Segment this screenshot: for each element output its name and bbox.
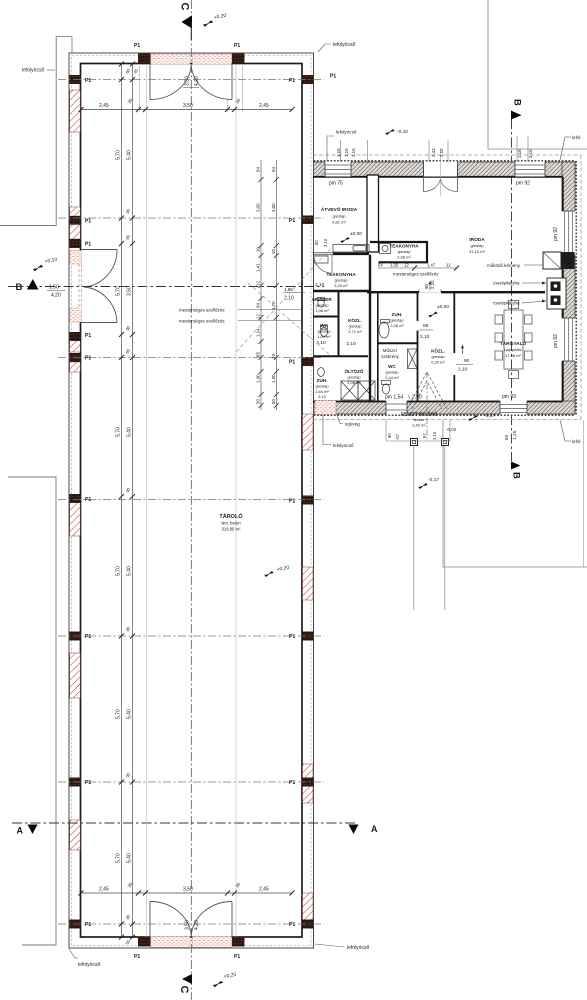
- wire central vertical wall V1: [369, 255, 371, 401]
- wire A-A section line: [12, 822, 355, 824]
- node office-side tick marks: [259, 177, 279, 408]
- svg-text:4,20: 4,20: [194, 920, 200, 930]
- svg-text:2,45: 2,45: [99, 103, 109, 109]
- svg-text:2,10: 2,10: [439, 148, 444, 157]
- pillars right wall: [302, 75, 314, 84]
- svg-text:P1: P1: [85, 242, 91, 248]
- svg-text:2,42 m²: 2,42 m²: [412, 423, 426, 428]
- svg-text:5,70: 5,70: [116, 709, 122, 719]
- svg-text:ÁTVEVŐ IRODA: ÁTVEVŐ IRODA: [321, 206, 358, 213]
- node section C top: triangle and label: [182, 15, 193, 28]
- svg-text:1,18: 1,18: [517, 149, 522, 158]
- svg-text:1,90: 1,90: [256, 374, 261, 383]
- svg-text:5,70: 5,70: [116, 150, 122, 160]
- svg-text:2,10: 2,10: [430, 280, 435, 289]
- svg-text:greslap: greslap: [317, 329, 331, 334]
- node room label IRODA: [469, 237, 485, 254]
- wire grid row 7: [58, 923, 324, 925]
- node top door opening white: [151, 64, 232, 66]
- svg-text:pm 93: pm 93: [502, 394, 516, 400]
- svg-text:97: 97: [422, 433, 427, 438]
- svg-text:90: 90: [424, 284, 429, 289]
- svg-text:greslap: greslap: [431, 354, 445, 359]
- transistor-style dark pillars P1: left wall: [69, 54, 313, 947]
- svg-text:pm 1,54: pm 1,54: [385, 395, 403, 401]
- svg-text:3,16: 3,16: [528, 149, 533, 158]
- node window pm92 right upper: [562, 211, 576, 255]
- node stove niche: [547, 278, 566, 309]
- wire office inner thick wall edges: [313, 177, 563, 402]
- node bottom door leaves: [149, 902, 151, 938]
- node dim texts bottom chain: [99, 881, 269, 892]
- node tick marks top chain: [79, 107, 295, 112]
- wire office eaves dashed outline: [313, 155, 581, 420]
- node section A right: [349, 825, 359, 835]
- svg-text:-0,17: -0,17: [428, 477, 439, 483]
- node tile stove 1: [551, 282, 561, 292]
- svg-text:2,10: 2,10: [346, 341, 356, 347]
- svg-text:4,20: 4,20: [51, 293, 61, 299]
- wire B-B section line horizontal: [8, 286, 324, 288]
- svg-text:85: 85: [256, 352, 261, 357]
- svg-text:pm 92: pm 92: [553, 227, 559, 241]
- node P1 labels left wall: [85, 43, 336, 960]
- svg-text:C: C: [178, 986, 190, 994]
- svg-text:pm 75: pm 75: [329, 181, 343, 187]
- wire grid row 1: [58, 79, 324, 81]
- svg-text:2,98 m²: 2,98 m²: [397, 255, 411, 260]
- svg-text:85: 85: [423, 323, 429, 329]
- node terrace outline bottom right: [443, 420, 587, 567]
- wire wc1 right wall: [338, 292, 340, 356]
- wire interior dim chain line 2: [132, 64, 134, 937]
- pillars bottom wall door flanks: [138, 937, 151, 947]
- node dims teakonyha chain: [378, 263, 451, 268]
- svg-text:12: 12: [256, 281, 261, 286]
- wire post extension line 2: [444, 446, 446, 611]
- svg-text:terasz: terasz: [414, 417, 425, 422]
- node oltozo lockers: [341, 381, 358, 400]
- svg-text:2,10: 2,10: [458, 367, 468, 373]
- node post 1: [411, 439, 418, 446]
- node left door leaves: [81, 249, 117, 251]
- wire post extension line 1: [413, 446, 415, 611]
- node section C bottom: [182, 974, 192, 984]
- svg-text:lefolyócső: lefolyócső: [347, 945, 369, 951]
- svg-text:3,50: 3,50: [183, 103, 193, 109]
- svg-text:KÖZL.: KÖZL.: [348, 317, 362, 323]
- svg-text:P1: P1: [85, 922, 91, 928]
- right wall red infill segments: [303, 414, 314, 450]
- svg-text:3,00: 3,00: [271, 203, 276, 212]
- wire hall inner wall thick edge: [81, 64, 303, 938]
- node post 2: [442, 439, 449, 446]
- wire teakonyha nook top wall: [370, 241, 428, 243]
- node chairs right column: [525, 315, 533, 324]
- svg-text:318,85 m²: 318,85 m²: [222, 527, 241, 532]
- wire site boundary top-left hook: [56, 36, 72, 38]
- svg-text:2,90: 2,90: [412, 395, 422, 401]
- wire top chain lines office: [340, 140, 342, 162]
- svg-text:3,20 m²: 3,20 m²: [334, 283, 348, 288]
- svg-text:P1: P1: [289, 499, 295, 505]
- node left door arcs: [84, 250, 117, 288]
- svg-text:lefolyócső: lefolyócső: [78, 962, 100, 968]
- svg-text:ZUH.: ZUH.: [392, 312, 403, 317]
- node room label ÁTVEVŐ IRODA: [321, 206, 358, 225]
- svg-text:P1: P1: [85, 333, 91, 339]
- node chimney pier dark: [561, 252, 575, 269]
- node office top wall hatched band: [314, 162, 576, 414]
- node bay dimension texts 5.70 / 5.40 rotated: [116, 67, 140, 945]
- svg-text:3,50: 3,50: [183, 887, 193, 893]
- svg-text:lefol: lefol: [572, 135, 580, 140]
- svg-text:pm 92: pm 92: [516, 181, 530, 187]
- svg-text:P1: P1: [330, 74, 336, 80]
- node FEDETT BELEPO label: [401, 412, 438, 428]
- svg-text:cserépkályha: cserépkályha: [493, 301, 520, 306]
- svg-text:-0,17: -0,17: [484, 413, 495, 419]
- svg-text:P1: P1: [85, 497, 91, 503]
- svg-text:1,16: 1,16: [344, 148, 349, 157]
- node room label ÖLTÖZŐ: [345, 368, 364, 385]
- node teakonyha3 counter: [314, 256, 328, 263]
- node wc1 toilet: [321, 327, 328, 336]
- resistor-style red infill: left wall segments: [70, 90, 313, 920]
- node level +0.20 top: [203, 19, 213, 29]
- wire grid row 2: [58, 217, 324, 219]
- node room label ZUH 2.08: [390, 312, 404, 328]
- node section B bottom right: [511, 462, 521, 470]
- svg-text:P1: P1: [234, 43, 240, 49]
- wire atvevo door bottom-left thin: [313, 252, 333, 254]
- svg-text:54: 54: [271, 167, 276, 172]
- node neighbor building 1 outline: [0, 37, 56, 226]
- svg-text:2,08 m²: 2,08 m²: [390, 323, 404, 328]
- svg-text:greslap: greslap: [397, 249, 411, 254]
- node room label MŰSZER: [312, 296, 332, 313]
- svg-text:6,81 m²: 6,81 m²: [332, 220, 346, 225]
- svg-text:WC: WC: [320, 323, 328, 328]
- svg-text:6,20 m²: 6,20 m²: [431, 360, 445, 365]
- node tile stove 2: [551, 296, 561, 306]
- svg-text:P1: P1: [85, 634, 91, 640]
- node office entrance door top: [424, 150, 458, 196]
- svg-text:10: 10: [256, 247, 261, 252]
- node canopy dashed gable: [407, 372, 447, 409]
- wire roof projection dashed diagonals: [236, 249, 330, 352]
- node muszer szekreny label: [381, 348, 399, 359]
- svg-text:greslap: greslap: [315, 303, 329, 308]
- svg-text:94: 94: [256, 303, 261, 308]
- wire targyalo left wall upper: [453, 292, 455, 353]
- wire office-side vertical dim lines in hall: [260, 160, 262, 410]
- node window pm92 top: [515, 162, 545, 177]
- svg-text:5,70: 5,70: [116, 427, 122, 437]
- svg-text:1,50: 1,50: [49, 285, 59, 291]
- node TÁROLÓ room label: [219, 512, 243, 532]
- svg-text:1,90: 1,90: [271, 374, 276, 383]
- svg-text:3,50: 3,50: [185, 920, 191, 930]
- svg-text:ZUH.: ZUH.: [317, 378, 328, 383]
- svg-text:WC: WC: [388, 364, 396, 369]
- wire hall outer wall outline: [69, 53, 314, 948]
- node meeting table: [504, 310, 523, 369]
- svg-text:P1: P1: [289, 218, 295, 224]
- wire central vertical wall V3: [377, 292, 379, 401]
- svg-text:TEAKONYHA: TEAKONYHA: [326, 272, 356, 277]
- node door iroda-kozl swing: [419, 291, 441, 293]
- svg-text:1,09 m²: 1,09 m²: [317, 334, 331, 339]
- svg-text:17,98 m²: 17,98 m²: [505, 353, 521, 358]
- svg-text:1,86: 1,86: [284, 287, 293, 292]
- wire belepo slab dashed: [385, 420, 387, 442]
- svg-text:A: A: [371, 824, 378, 834]
- svg-text:P1: P1: [85, 780, 91, 786]
- svg-text:lefolyócső: lefolyócső: [22, 68, 44, 74]
- node chair bottom: [509, 371, 519, 379]
- svg-text:2,10: 2,10: [318, 394, 327, 399]
- node zuh1 basin: [318, 368, 325, 377]
- node muszer szekreny cabinet: [408, 349, 418, 369]
- wire grid row 5: [58, 635, 324, 637]
- svg-text:3,50: 3,50: [185, 76, 191, 86]
- svg-text:-0,10: -0,10: [397, 129, 408, 135]
- svg-text:P1: P1: [134, 43, 140, 49]
- svg-text:lefol: lefol: [572, 439, 580, 444]
- svg-text:5,70: 5,70: [116, 566, 122, 576]
- svg-text:2,10: 2,10: [316, 340, 326, 346]
- wire canopy axis: [426, 372, 428, 441]
- svg-text:tejüveg: tejüveg: [345, 422, 360, 427]
- wire hall wall inner dashed insulation line: [72, 56, 312, 946]
- svg-text:2,10: 2,10: [420, 334, 430, 340]
- svg-text:3,50: 3,50: [127, 286, 133, 296]
- wire grid row 6: [58, 781, 324, 783]
- svg-text:P1: P1: [85, 356, 91, 362]
- svg-text:2,10: 2,10: [323, 238, 328, 247]
- svg-text:2,10: 2,10: [432, 431, 437, 440]
- svg-text:2,71 m²: 2,71 m²: [348, 329, 362, 334]
- node room label KÖZL 6.20: [431, 348, 445, 365]
- svg-text:5,70: 5,70: [116, 286, 122, 296]
- svg-text:P1: P1: [289, 634, 295, 640]
- wire zuh2-wc divider wall: [378, 342, 418, 344]
- svg-text:greslap: greslap: [347, 375, 361, 380]
- svg-text:2,10: 2,10: [315, 282, 325, 288]
- svg-text:90: 90: [387, 433, 392, 438]
- svg-text:greslap: greslap: [348, 324, 362, 329]
- wire plot line top right vertical: [487, 0, 489, 149]
- node room label KÖZL 2.71: [346, 317, 362, 347]
- node window pm92 right lower: [562, 318, 576, 361]
- wire corridor left wall: [417, 292, 419, 321]
- svg-text:1,47: 1,47: [427, 263, 436, 268]
- node door direction arrow kozl: [429, 281, 431, 290]
- svg-text:4,20: 4,20: [194, 76, 200, 86]
- node room label TEAKONYHA lower: [326, 272, 356, 288]
- wire wall atvevo iroda right: [367, 175, 379, 252]
- svg-text:2,10: 2,10: [284, 296, 294, 302]
- svg-text:2,43: 2,43: [431, 148, 436, 157]
- node bottom door arcs: [150, 901, 191, 935]
- node door atvevo swing: [314, 255, 332, 273]
- node zuh2 shower basin: [379, 322, 389, 338]
- svg-text:10: 10: [271, 249, 276, 254]
- svg-text:89: 89: [504, 435, 509, 440]
- svg-text:szekrény: szekrény: [381, 354, 399, 359]
- svg-text:5,40: 5,40: [127, 150, 133, 160]
- node top chain rotated dims office: [336, 148, 533, 158]
- svg-text:B: B: [511, 472, 522, 479]
- node room label WC 2.44: [385, 364, 399, 380]
- svg-text:54: 54: [378, 263, 383, 268]
- svg-text:Műszer: Műszer: [383, 348, 398, 353]
- wire door alignment line left: [146, 64, 148, 937]
- node office right wall band: [562, 162, 575, 414]
- node office outer sawtooth texture: [314, 161, 577, 415]
- wire interior dim chain line 1: [121, 64, 123, 937]
- node dim texts top chain: [99, 97, 269, 109]
- svg-text:A: A: [17, 826, 24, 836]
- svg-text:lefolyócső: lefolyócső: [333, 42, 355, 48]
- svg-text:ÖLTÖZŐ: ÖLTÖZŐ: [345, 368, 364, 374]
- svg-text:31,10 m²: 31,10 m²: [469, 249, 485, 254]
- svg-text:greslap: greslap: [334, 278, 348, 283]
- svg-text:FEDETT BELÉPŐ: FEDETT BELÉPŐ: [401, 412, 438, 417]
- node office-side dim numbers column A: [256, 167, 277, 404]
- pillars top wall door flanks: [138, 54, 151, 64]
- wire wall atvevo bottom thick: [333, 253, 369, 256]
- svg-text:2,45: 2,45: [259, 887, 269, 893]
- svg-text:B: B: [16, 282, 23, 293]
- svg-text:mesterséges szellőzés: mesterséges szellőzés: [179, 308, 225, 313]
- svg-text:P1: P1: [134, 954, 140, 960]
- svg-text:mesterséges szellőzés: mesterséges szellőzés: [393, 272, 439, 277]
- wire targyalo left wall lower: [453, 375, 455, 401]
- svg-text:12: 12: [404, 263, 409, 268]
- node door targyalo arrow: [462, 345, 464, 354]
- svg-text:P1: P1: [289, 78, 295, 84]
- svg-text:12: 12: [446, 263, 451, 268]
- svg-text:2,44 m²: 2,44 m²: [385, 375, 399, 380]
- node top door arcs: [150, 66, 191, 100]
- node muszer basin: [318, 299, 324, 307]
- svg-text:2,45: 2,45: [259, 103, 269, 109]
- node level +0.20 bottom: [213, 979, 223, 989]
- svg-text:TEAKONYHA: TEAKONYHA: [389, 244, 419, 249]
- svg-text:-57: -57: [395, 433, 400, 440]
- wire door alignment line right: [235, 64, 237, 937]
- svg-text:működő kémény: működő kémény: [487, 263, 521, 268]
- node room label ZUH 1.84: [315, 378, 329, 399]
- svg-text:1,41: 1,41: [256, 263, 261, 272]
- node tick marks bottom chain: [79, 891, 295, 896]
- svg-text:mesterséges szellőzés: mesterséges szellőzés: [179, 319, 225, 324]
- svg-text:lefolyócső: lefolyócső: [336, 130, 357, 135]
- svg-text:5,40: 5,40: [127, 427, 133, 437]
- svg-text:54: 54: [256, 167, 261, 172]
- svg-text:P1: P1: [289, 922, 295, 928]
- wire grid row 3: [58, 357, 324, 359]
- node room label TEAKONYHA upper: [389, 244, 419, 260]
- svg-text:KÖZL.: KÖZL.: [431, 348, 445, 354]
- svg-text:B: B: [512, 99, 523, 106]
- svg-text:1,08 m²: 1,08 m²: [315, 308, 329, 313]
- wire top door jamb leaves: [149, 64, 151, 100]
- svg-text:TÁROLÓ: TÁROLÓ: [219, 512, 243, 520]
- svg-text:greslap: greslap: [470, 243, 484, 248]
- svg-text:P1: P1: [85, 78, 91, 84]
- node room label TÁRGYALÓ: [500, 339, 527, 358]
- node window pm75 top: [325, 162, 351, 177]
- wire B-B section line vertical office: [511, 119, 513, 461]
- svg-text:greslap: greslap: [332, 214, 346, 219]
- node teakonyha nook sink cabinet: [380, 244, 391, 254]
- svg-text:3,16: 3,16: [351, 148, 356, 157]
- node wc2 toilet: [382, 384, 389, 394]
- svg-text:5,40: 5,40: [127, 566, 133, 576]
- node small 30 marks at rows: [125, 67, 140, 945]
- svg-text:P1: P1: [234, 954, 240, 960]
- svg-text:±0,00: ±0,00: [437, 304, 449, 310]
- wire teakonyha nook bottom wall: [379, 261, 429, 263]
- svg-text:3,00: 3,00: [256, 203, 261, 212]
- svg-text:50: 50: [271, 399, 276, 404]
- node window pm93 bottom: [500, 401, 527, 415]
- node level mark +0.20 center hall: [264, 565, 290, 579]
- wire grid row 4: [58, 499, 324, 501]
- svg-text:P1: P1: [289, 360, 295, 366]
- node interior chain ticks at grid rows: [119, 62, 135, 940]
- svg-text:12: 12: [256, 314, 261, 319]
- svg-text:2,45: 2,45: [99, 887, 109, 893]
- wire targyalo top wall: [441, 291, 545, 293]
- svg-text:19: 19: [271, 354, 276, 359]
- wire plot line top right horizontal: [488, 148, 587, 150]
- svg-text:lefolyócső: lefolyócső: [333, 443, 354, 448]
- svg-text:5,70: 5,70: [116, 853, 122, 863]
- wire vertical C-C axis line: [190, 0, 192, 1000]
- svg-text:1,55: 1,55: [390, 263, 399, 268]
- svg-text:MŰSZER: MŰSZER: [312, 296, 332, 302]
- node speckled lintel zones at doors: [70, 54, 232, 947]
- svg-text:P1: P1: [85, 219, 91, 225]
- svg-text:greslap: greslap: [390, 318, 404, 323]
- node neighbor building 2 outline: [8, 477, 56, 945]
- node level +0.10 left door: [33, 263, 43, 273]
- wire row divider wall y356: [313, 355, 368, 357]
- svg-text:80: 80: [314, 240, 319, 245]
- wire corridor top wall iroda bottom: [367, 291, 419, 293]
- svg-text:cserépkályha: cserépkályha: [493, 281, 520, 286]
- wire muszer wc divider: [313, 316, 338, 318]
- node chairs left column: [495, 315, 503, 324]
- node atvevo counter: [333, 245, 369, 253]
- svg-text:2,08 m²: 2,08 m²: [347, 380, 361, 385]
- node window tejüveg bottom red: [315, 401, 336, 415]
- svg-text:1,14: 1,14: [256, 328, 261, 337]
- svg-text:pm 92: pm 92: [553, 334, 559, 348]
- svg-text:±0,00: ±0,00: [350, 231, 362, 237]
- wire bottom dim chain: [81, 892, 292, 894]
- node room label WC small: [316, 323, 331, 346]
- wire teakonyha nook right wall: [426, 242, 428, 263]
- svg-text:greslap: greslap: [385, 370, 399, 375]
- node chair top: [509, 301, 519, 309]
- svg-text:sim. beton: sim. beton: [221, 521, 241, 526]
- svg-text:50: 50: [256, 399, 261, 404]
